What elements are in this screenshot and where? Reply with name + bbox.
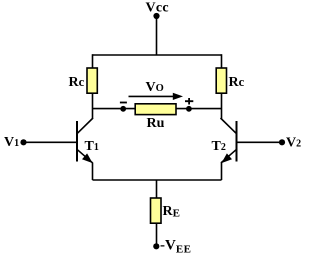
label plus sign [185, 98, 193, 105]
wire Vo arrow [129, 93, 184, 100]
resistor Rc right [216, 68, 226, 93]
node output minus dot [120, 106, 126, 112]
svg-text:T1: T1 [85, 139, 99, 154]
node output plus dot [186, 106, 192, 112]
resistor RE [151, 198, 162, 223]
wire Vcc stem [156, 16, 158, 55]
svg-text:T2: T2 [212, 139, 226, 154]
node -VEE terminal dot [153, 243, 159, 249]
svg-text:VO: VO [146, 80, 164, 95]
resistor Rc left [87, 68, 97, 93]
svg-text:Rc: Rc [229, 75, 245, 90]
svg-text:V2: V2 [286, 136, 301, 151]
svg-text:Ru: Ru [147, 116, 165, 131]
node V1 terminal dot [20, 139, 26, 145]
wire right collector drop [221, 54, 223, 68]
node Vcc terminal dot [153, 13, 159, 19]
svg-text:V1: V1 [4, 135, 19, 150]
wire left collector drop [92, 54, 94, 68]
wire T2 base [237, 141, 282, 143]
wire top rail [93, 54, 222, 56]
resistor Ru [135, 104, 176, 115]
wire bottom rail [93, 179, 222, 181]
transistor T2 [221, 118, 237, 163]
label minus sign [120, 102, 127, 104]
wire left Rc to collector [92, 93, 94, 118]
transistor T1 [77, 118, 93, 163]
svg-text:Rc: Rc [69, 75, 85, 90]
wire T1 base [24, 141, 77, 143]
wire T2 emitter drop [221, 163, 223, 181]
node V2 terminal dot [279, 139, 285, 145]
wire RE to -VEE [156, 223, 158, 246]
wire T1 emitter drop [92, 163, 94, 181]
wire output row [93, 108, 222, 110]
wire emitter stem to RE [156, 180, 158, 199]
wire right Rc to collector [221, 93, 223, 118]
